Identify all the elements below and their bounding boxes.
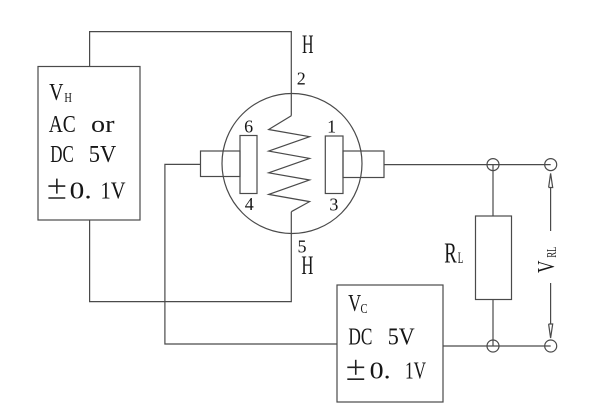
terminal bottom left — [487, 340, 499, 352]
left tab — [201, 151, 241, 177]
terminal bottom right — [545, 340, 557, 352]
terminal top right — [545, 159, 557, 171]
wire sensor right to measure terminals — [384, 164, 551, 166]
wire RL bottom — [492, 300, 494, 347]
svg-text:3: 3 — [329, 195, 338, 215]
box Vc (sensor supply) — [337, 285, 443, 402]
right electrode — [325, 136, 343, 194]
svg-text:RL: RL — [444, 237, 463, 269]
wire RL top — [492, 165, 494, 216]
plus-minus glyph VH box — [48, 179, 65, 198]
wire heater top: VH top to pin 2 — [90, 32, 292, 116]
resistor RL body — [476, 216, 512, 300]
svg-text:H: H — [301, 251, 313, 280]
terminal top left — [487, 159, 499, 171]
svg-text:DC5V: DC5V — [50, 142, 117, 168]
VRL arrow shaft lower — [550, 283, 552, 324]
wire heater bottom return: pin 5 to VH bottom — [90, 212, 292, 302]
VRL arrow bottom head — [549, 324, 553, 338]
svg-text:H: H — [302, 30, 314, 59]
svg-text:DC5V: DC5V — [348, 325, 415, 351]
svg-text:ACor: ACor — [49, 112, 115, 138]
box VH (AC/DC heater supply) — [38, 67, 140, 221]
svg-text:1: 1 — [327, 116, 336, 136]
VRL arrow shaft upper — [550, 188, 552, 232]
sensor body circle — [222, 94, 362, 234]
svg-text:0.1V: 0.1V — [370, 359, 427, 385]
right tab — [343, 151, 384, 178]
svg-text:VRL: VRL — [534, 247, 560, 273]
left electrode — [240, 136, 257, 194]
svg-text:VC: VC — [348, 291, 367, 317]
svg-text:0.1V: 0.1V — [70, 178, 126, 204]
wire bottom rail: Vc right to terminals — [443, 345, 551, 347]
VRL arrow top head — [549, 173, 553, 187]
plus-minus glyph Vc box — [347, 360, 364, 379]
heater coil zigzag — [269, 116, 310, 212]
svg-text:2: 2 — [297, 69, 306, 89]
svg-text:6: 6 — [244, 116, 253, 136]
wire sensor left electrode to Vc — [165, 164, 337, 344]
svg-text:4: 4 — [245, 194, 254, 214]
svg-text:VH: VH — [49, 80, 72, 106]
